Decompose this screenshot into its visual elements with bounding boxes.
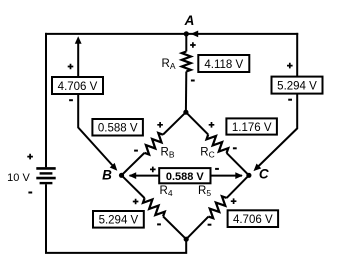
svg-text:A: A (184, 13, 195, 28)
svg-text:1.176 V: 1.176 V (232, 122, 272, 134)
svg-text:B: B (102, 168, 112, 183)
svg-text:0.588 V: 0.588 V (166, 171, 205, 183)
svg-text:4.706 V: 4.706 V (58, 81, 98, 93)
svg-text:C: C (259, 167, 269, 182)
svg-text:4.118 V: 4.118 V (204, 59, 243, 71)
svg-text:0.588 V: 0.588 V (98, 123, 138, 135)
svg-text:10 V: 10 V (7, 172, 30, 184)
svg-text:5.294 V: 5.294 V (277, 80, 317, 92)
svg-text:4.706 V: 4.706 V (233, 214, 273, 226)
svg-text:5.294 V: 5.294 V (99, 215, 139, 227)
